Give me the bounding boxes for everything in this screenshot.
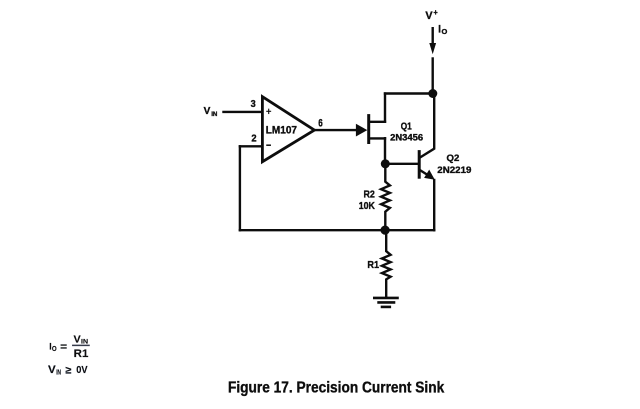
svg-text:2N2219: 2N2219 bbox=[437, 165, 471, 176]
caption Figure 17 bbox=[228, 380, 444, 397]
wire Q1 drain vertical bbox=[384, 94, 386, 122]
op-amp U1 LM107 triangle bbox=[262, 97, 314, 162]
svg-text:6: 6 bbox=[318, 118, 323, 130]
svg-text:R2: R2 bbox=[364, 190, 376, 201]
wire pin 2 input bbox=[240, 145, 262, 147]
wire V+ terminal down to arrow bbox=[432, 28, 434, 43]
wire VIN to pin 3 bbox=[224, 111, 262, 113]
label R2 bbox=[364, 190, 376, 201]
node V+ label bbox=[425, 8, 438, 22]
transistor Q1 channel bar bbox=[367, 116, 370, 143]
label 10K value bbox=[359, 201, 376, 212]
pin 3 label bbox=[251, 98, 256, 110]
wire arrow to top junction bbox=[432, 59, 434, 94]
svg-text:R1: R1 bbox=[74, 348, 89, 360]
equation VIN >= 0V bbox=[48, 364, 88, 376]
svg-text:O: O bbox=[442, 27, 448, 36]
wire Q2 emitter diagonal bbox=[420, 170, 428, 175]
svg-text:IN: IN bbox=[211, 111, 217, 118]
node A junction (Q1 source / R2 / Q2 base) bbox=[381, 159, 390, 168]
svg-text:R1: R1 bbox=[367, 260, 379, 271]
svg-text:V: V bbox=[204, 106, 211, 117]
svg-text:Q2: Q2 bbox=[447, 153, 460, 164]
svg-text:≥: ≥ bbox=[65, 365, 71, 376]
wire Q1 drain horizontal bbox=[369, 121, 385, 123]
arrowhead into Q1 gate bbox=[356, 124, 367, 137]
label 2N2219 bbox=[437, 165, 471, 176]
svg-text:2: 2 bbox=[251, 132, 256, 144]
svg-text:V: V bbox=[48, 364, 56, 376]
wire Q2 emitter vertical bbox=[433, 180, 435, 230]
pin + symbol bbox=[267, 110, 271, 112]
label Q2 bbox=[447, 153, 460, 164]
svg-text:LM107: LM107 bbox=[266, 125, 297, 137]
wire output pin 6 to gate bbox=[314, 129, 356, 131]
transistor Q2 base bar bbox=[418, 152, 421, 178]
wire feedback vertical bbox=[239, 146, 241, 230]
label IO bbox=[438, 23, 447, 36]
ground bbox=[374, 297, 397, 300]
svg-text:Q1: Q1 bbox=[401, 121, 412, 132]
svg-text:V: V bbox=[425, 10, 433, 22]
wire bottom rail bbox=[240, 229, 434, 231]
label LM107 bbox=[266, 125, 297, 137]
wire Q1 source vertical down to node A bbox=[384, 138, 386, 164]
node junction top (V+ rail) bbox=[428, 89, 437, 98]
pin 2 label bbox=[251, 132, 256, 144]
svg-text:Figure 17. Precision Current S: Figure 17. Precision Current Sink bbox=[228, 380, 444, 397]
resistor R2 bbox=[381, 164, 390, 230]
wire Q2 collector bbox=[420, 95, 434, 158]
svg-text:+: + bbox=[434, 8, 438, 17]
equation IO = VIN/R1 bbox=[49, 334, 88, 360]
wire Q1 source horizontal bbox=[369, 137, 385, 139]
svg-text:0V: 0V bbox=[76, 365, 87, 376]
pin - symbol bbox=[267, 144, 270, 146]
svg-text:O: O bbox=[52, 346, 57, 353]
Q2 emitter arrowhead bbox=[424, 170, 435, 180]
equation fraction bar bbox=[73, 344, 89, 346]
label VIN input bbox=[204, 106, 218, 118]
wire top horizontal Q1 drain to junction bbox=[385, 92, 433, 94]
svg-text:=: = bbox=[60, 342, 67, 353]
label 2N3456 bbox=[390, 133, 423, 144]
resistor R1 bbox=[382, 230, 391, 297]
pin 6 label bbox=[318, 118, 323, 130]
svg-text:10K: 10K bbox=[359, 201, 376, 212]
IO current arrowhead bbox=[429, 43, 436, 54]
svg-text:3: 3 bbox=[251, 98, 256, 110]
node junction bottom rail / R1 bbox=[381, 226, 390, 235]
svg-text:2N3456: 2N3456 bbox=[390, 133, 423, 144]
svg-text:IN: IN bbox=[56, 370, 61, 377]
label R1 bbox=[367, 260, 379, 271]
label Q1 bbox=[401, 121, 412, 132]
wire Q2 base bbox=[385, 163, 418, 165]
